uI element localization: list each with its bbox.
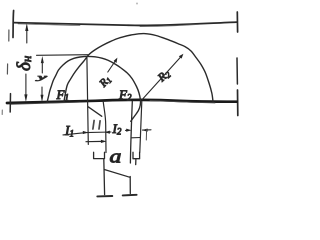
stub below right cup: [135, 159, 137, 165]
vertical V3 upper (long centerline right): [130, 102, 132, 164]
dim I1 line with arrows: [63, 132, 111, 135]
speck top middle: [136, 3, 138, 5]
leader R1: [108, 60, 117, 73]
top line roughness overlay: [18, 24, 200, 27]
arc R2 (outer nugget circle): [64, 34, 213, 102]
right border dash top: [236, 12, 238, 32]
dim y lower arrow: [41, 87, 43, 95]
cup right: [133, 152, 140, 158]
arc R1 (inner nugget circle, through apex, dips below line at right): [47, 56, 141, 121]
bottom tick right centerline: [123, 194, 137, 197]
svg-text:F1: F1: [56, 87, 69, 103]
svg-text:a: a: [110, 146, 122, 167]
vertical V4: [140, 102, 142, 153]
right border dash lower: [237, 90, 239, 116]
svg-text:F2: F2: [118, 87, 132, 103]
joint line left end tick: [9, 94, 11, 112]
break diagonal: [104, 170, 130, 178]
joint line roughness overlay: [10, 101, 215, 105]
vertical V2 (right edge of left column): [103, 102, 106, 153]
vertical V3 lower: [129, 177, 131, 194]
radius line R1 vertical (apex through line, centerline V1): [87, 58, 88, 145]
dim I2 arrow right side: [143, 129, 152, 131]
hatch diagonal left (below line): [88, 107, 102, 117]
sheet top line: [14, 22, 237, 25]
dim delta_n upper arrow: [26, 26, 28, 43]
svg-text:I2: I2: [112, 121, 122, 137]
dim y upper arrow: [41, 56, 44, 63]
svg-text:I1: I1: [64, 123, 74, 139]
joint line (thick surface line): [7, 100, 237, 103]
cup left (dent bottom): [94, 152, 105, 158]
hatch bar 2 between V1 and V2: [99, 121, 100, 129]
short extension below I2 right arrow: [145, 130, 147, 141]
bottom tick left centerline: [97, 195, 112, 197]
svg-text:δн: δн: [14, 56, 35, 71]
connector between V3 and V4: [132, 137, 141, 139]
top line left end tick: [12, 11, 15, 38]
arrow line at y=141.5: [86, 140, 103, 142]
hatch bar 1 between V1 and V2: [93, 121, 94, 130]
centerline left below cup: [103, 159, 106, 195]
noise dash left edge 2: [6, 64, 8, 74]
right border dash middle: [236, 58, 238, 84]
leader R2 arrowhead: [179, 54, 184, 59]
dim I2 arrow left side: [126, 129, 129, 131]
dim y extension line: [37, 54, 89, 57]
noise dash left edge 1: [8, 30, 10, 41]
dim delta_n lower arrow: [25, 74, 27, 95]
svg-text:y: y: [35, 74, 47, 82]
leader R2: [142, 56, 182, 100]
svg-text:R1: R1: [97, 74, 114, 91]
noise dash left edge 3: [1, 110, 3, 115]
